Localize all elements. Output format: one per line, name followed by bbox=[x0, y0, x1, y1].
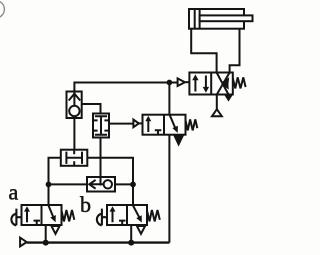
wire C2 outlet to V2 pilot bbox=[109, 123, 133, 125]
op valve V1 pilot triangle bbox=[178, 78, 185, 86]
wire cylinder left port to main valve port 4 bbox=[191, 29, 216, 73]
pilot valve V2 return spring bbox=[186, 119, 198, 130]
two-pressure valve C2 shuttle glyph bbox=[93, 116, 109, 135]
op valve V1 left box parallel arrows bbox=[194, 79, 196, 92]
valve b left box arrow bbox=[112, 210, 114, 222]
pilot valve V2 left box blocked port bbox=[155, 130, 162, 134]
two-pressure valve C2 body (vertical) bbox=[93, 114, 109, 138]
op valve V1 exhaust port 3 triangle bbox=[225, 95, 232, 100]
wire junction A to valve a outlet bbox=[48, 184, 50, 205]
valve b left box blocked port bbox=[119, 221, 126, 225]
pilot valve V2 (3/2) body bbox=[143, 115, 186, 135]
valve b right box exhaust path bbox=[133, 206, 140, 218]
wire valve b supply to rail bbox=[130, 225, 132, 243]
op valve V1 supply stub bbox=[216, 95, 218, 110]
wire V2 output to junction J1 bbox=[168, 83, 170, 115]
valve b push button bbox=[97, 209, 107, 226]
op valve V1 (4/2 main valve) body bbox=[189, 73, 232, 95]
valve a right box exhaust path bbox=[49, 206, 54, 218]
cylinder A1 body bbox=[189, 9, 244, 29]
junction valve b supply bbox=[128, 240, 134, 246]
check valve C1 seat bbox=[69, 94, 81, 101]
junction J1 bbox=[167, 80, 173, 86]
check valve C1 ball bbox=[69, 106, 79, 116]
valve b divider bbox=[126, 205, 128, 225]
shuttle valve C4 arrow bbox=[89, 180, 103, 189]
shuttle valve C4 body bbox=[87, 177, 115, 192]
wire cylinder right port to main valve port 2 bbox=[230, 29, 240, 73]
pilot valve V2 divider bbox=[163, 115, 165, 135]
valve a left box blocked port bbox=[34, 221, 41, 225]
pilot valve V2 exhaust triangle bbox=[174, 135, 183, 144]
shuttle valve C4 ball bbox=[104, 180, 112, 188]
wire C3 left port to junction A bbox=[49, 158, 61, 185]
check valve C1 stem bbox=[73, 92, 75, 106]
junction valve a supply bbox=[43, 240, 49, 246]
wire C2 bottom to shuttle C4 top bbox=[100, 138, 102, 178]
valve b exhaust triangle bbox=[137, 226, 145, 234]
wire C3 right port to junction B bbox=[87, 158, 133, 185]
pilot valve V2 left box arrow bbox=[147, 120, 149, 132]
two-pressure valve C3 body (horizontal) bbox=[61, 150, 88, 166]
wire junction A to shuttle C4 left bbox=[49, 183, 88, 185]
valve a left box arrow bbox=[26, 210, 28, 222]
op valve V1 return spring bbox=[233, 77, 246, 88]
valve a exhaust triangle bbox=[51, 226, 59, 234]
wire C1 side port to C2 top bbox=[82, 104, 101, 114]
junction B bbox=[130, 182, 136, 188]
valve a divider bbox=[41, 205, 43, 225]
op valve V1 divider bbox=[210, 73, 212, 95]
junction A bbox=[46, 182, 52, 188]
wire valve a supply to rail bbox=[45, 225, 47, 243]
compressed air source triangle bbox=[20, 238, 27, 247]
check/shuttle valve C1 body bbox=[67, 92, 82, 119]
valve a (3/2 push button) body bbox=[22, 205, 62, 225]
pilot rail wire (to V1 pilot) bbox=[74, 83, 177, 92]
supply rail wire bbox=[27, 241, 170, 243]
wire junction B to valve b outlet bbox=[132, 184, 134, 205]
op valve V1 supply source triangle bbox=[212, 109, 222, 116]
valve b return spring bbox=[147, 210, 160, 221]
cylinder A1 piston rod bbox=[200, 15, 253, 21]
cylinder A1 piston bbox=[195, 9, 200, 29]
pilot valve V2 pilot triangle bbox=[133, 120, 138, 128]
valve b (3/2 push button) body bbox=[107, 205, 147, 225]
two-pressure valve C3 shuttle glyph bbox=[66, 150, 82, 166]
wire C1 bottom to C3 top bbox=[73, 118, 75, 150]
svg-text:b: b bbox=[80, 192, 91, 217]
shuttle valve C4 top stem bbox=[100, 177, 102, 186]
svg-text:a: a bbox=[9, 180, 19, 205]
valve a return spring bbox=[62, 210, 75, 221]
decorative corner arc (cropped figure number circle) bbox=[0, 1, 4, 18]
op valve V1 right box crossed arrows bbox=[217, 73, 229, 95]
pilot valve V2 right box exhaust path bbox=[170, 115, 176, 128]
valve a push button bbox=[11, 209, 21, 226]
wire shuttle C4 right to junction B bbox=[115, 183, 133, 185]
wire V2 supply from bottom rail bbox=[168, 135, 170, 243]
